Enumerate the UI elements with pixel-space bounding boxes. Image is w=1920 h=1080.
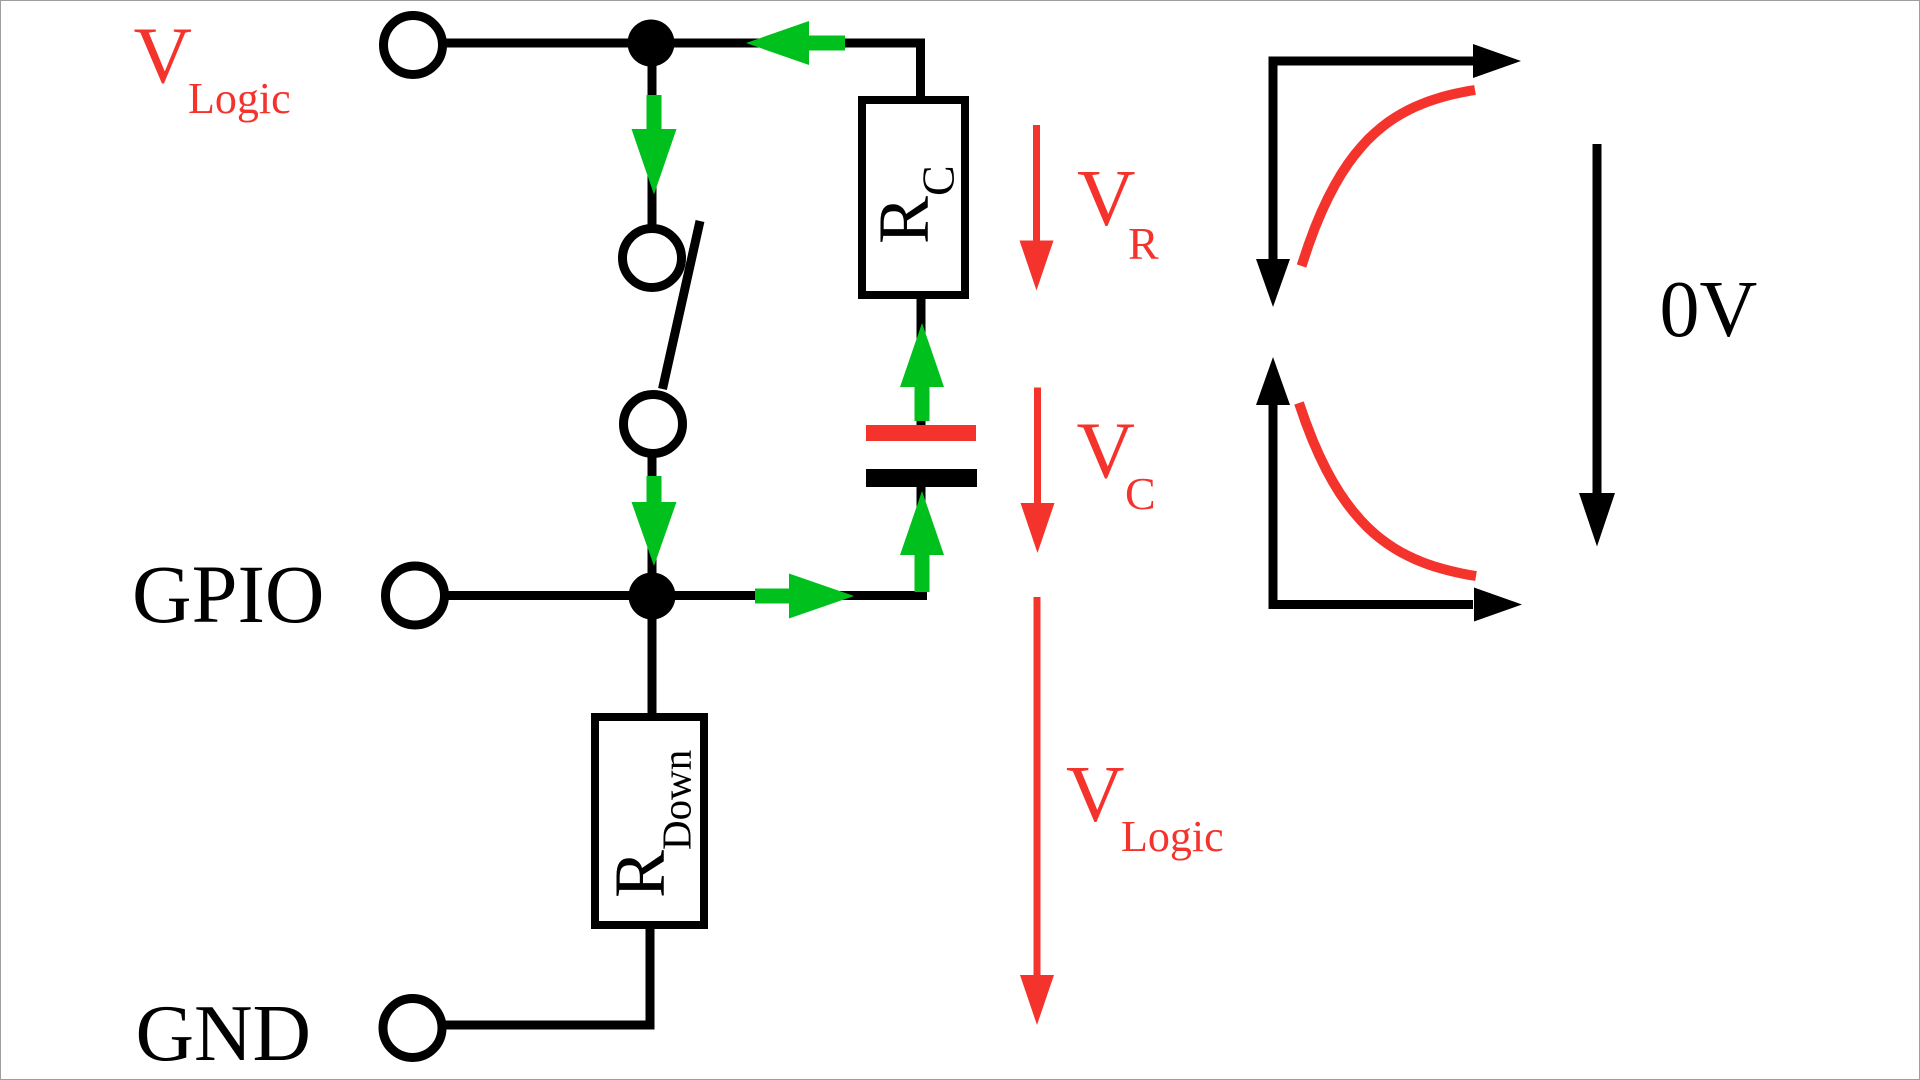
graph 2 discharging curve (red) [1299, 403, 1476, 576]
capacitor C1 top plate (red) [866, 425, 976, 441]
junction node at V_Logic net [628, 20, 675, 67]
capacitor C1 bottom plate (black) [866, 469, 977, 487]
junction node at GPIO net [629, 573, 676, 620]
green current arrow up into capacitor bottom [900, 491, 944, 592]
svg-text:0V: 0V [1660, 266, 1758, 354]
svg-text:C: C [1125, 468, 1156, 519]
green current arrow left-pointing on top wire [746, 21, 845, 65]
red arrow V_R [1020, 125, 1054, 291]
wire from GPIO junction down to R_Down top pin [648, 596, 657, 717]
green current arrow right-pointing on GPIO wire [755, 574, 854, 619]
terminal V_Logic [384, 16, 443, 75]
wire R_C bottom pin down to capacitor top plate [917, 295, 926, 425]
graph 1 time axis (horizontal, arrow right) [1269, 44, 1522, 78]
svg-text:GND: GND [136, 988, 312, 1078]
green current arrow up into R_C from capacitor [900, 323, 944, 421]
switch S1 lever [663, 221, 701, 389]
graph 2 voltage axis (vertical, arrow up) [1256, 357, 1290, 606]
resistor R_C body [862, 100, 965, 295]
terminal GND [383, 999, 442, 1058]
graph 1 voltage axis (vertical, arrow down) [1256, 57, 1290, 307]
terminal GPIO [386, 566, 445, 625]
wire from switch bottom contact down to GPIO junction [648, 454, 657, 596]
wire R_Down bottom pin down and left to GND terminal [413, 925, 650, 1025]
wire capacitor bottom plate down to GPIO net [917, 485, 926, 596]
green current arrow down from switch to GPIO junction [632, 476, 677, 566]
svg-text:V: V [134, 11, 193, 101]
wire corner down into R_C top pin [916, 39, 925, 101]
green current arrow down from top junction [632, 95, 677, 195]
svg-text:V: V [1066, 749, 1125, 839]
svg-text:Logic: Logic [188, 74, 291, 123]
svg-text:R: R [1128, 218, 1159, 269]
switch S1 bottom contact circle [624, 395, 683, 454]
red arrow V_C [1021, 388, 1055, 554]
0V reference arrow (black, long, down) [1579, 144, 1615, 547]
svg-text:V: V [1077, 153, 1136, 243]
switch S1 top contact circle [623, 229, 682, 288]
graph 2 time axis (horizontal, arrow right) [1269, 588, 1523, 622]
resistor R_Down body [595, 717, 704, 925]
wire vertical from top junction down to switch top contact [648, 43, 657, 258]
red arrow V_Logic (long, bottom) [1020, 597, 1054, 1025]
wire top horizontal from V_Logic terminal to R_C corner [413, 39, 921, 48]
graph 1 charging curve (red) [1302, 90, 1476, 266]
svg-text:GPIO: GPIO [132, 548, 325, 640]
svg-text:Logic: Logic [1121, 812, 1224, 861]
wire GPIO horizontal from terminal to capacitor branch [415, 591, 927, 600]
